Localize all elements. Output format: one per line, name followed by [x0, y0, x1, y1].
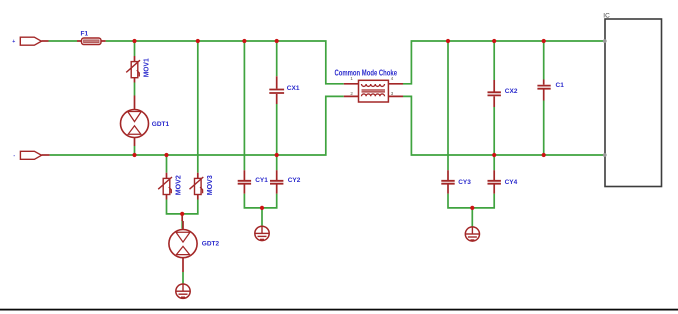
- earth ground (CY3/CY4): [465, 227, 479, 241]
- varistor MOV2: [158, 173, 172, 200]
- svg-text:-: -: [13, 153, 15, 159]
- wire: column CX1/CY2 x=276.7: [276, 41, 278, 170]
- IC pin dot bottom: [603, 153, 607, 157]
- svg-text:IC: IC: [603, 12, 610, 19]
- common mode choke L1: [344, 80, 403, 102]
- earth ground (GDT2): [176, 284, 190, 298]
- wire: column MOV2 x=166.5 and join to GDT2: [167, 155, 198, 284]
- capacitor CY4: [488, 170, 501, 193]
- svg-text:GDT1: GDT1: [152, 121, 170, 128]
- svg-text:CY1: CY1: [255, 177, 268, 184]
- svg-text:+: +: [12, 39, 15, 45]
- wire: column MOV1/GDT1 x=134.5: [134, 41, 136, 155]
- junction dots top rail: [132, 39, 545, 43]
- junction dot MOV2/MOV3 join: [180, 212, 184, 216]
- IC pin dot top: [603, 39, 607, 43]
- svg-text:CX2: CX2: [505, 88, 518, 95]
- svg-text:MOV1: MOV1: [144, 58, 151, 77]
- capacitor CY1: [238, 170, 251, 193]
- svg-text:Common Mode Choke: Common Mode Choke: [335, 69, 398, 78]
- junction dot CY3/CY4 join: [470, 206, 474, 210]
- wire: connector J2 pin stub: [42, 154, 50, 156]
- connector J1 (+ input): [20, 37, 41, 45]
- wire: column CY3 x=448: [448, 41, 494, 227]
- svg-text:MOV3: MOV3: [207, 175, 214, 195]
- wire: bottom rail: [50, 96, 605, 155]
- svg-text:MOV2: MOV2: [176, 175, 183, 195]
- svg-text:CY2: CY2: [288, 177, 301, 184]
- fuse F1: [77, 38, 106, 45]
- varistor MOV1: [126, 56, 140, 83]
- capacitor CX2: [488, 80, 501, 107]
- svg-text:GDT2: GDT2: [202, 241, 220, 248]
- svg-text:C1: C1: [556, 82, 565, 89]
- capacitor CY2: [270, 170, 283, 193]
- wire: column CY1 x=244.4: [244, 41, 276, 226]
- wire: column MOV3 x=197.8 (top rail through bottom rail): [197, 41, 199, 173]
- connector J2 (- input): [20, 151, 41, 159]
- bottom frame line: [0, 309, 678, 311]
- svg-text:CX1: CX1: [287, 85, 300, 92]
- varistor MOV3: [190, 173, 204, 200]
- wire: column C1 x=543.7: [543, 41, 545, 155]
- svg-text:F1: F1: [81, 31, 89, 38]
- capacitor CX1: [269, 76, 284, 104]
- capacitor C1: [537, 80, 550, 101]
- wire: top rail left section: [49, 41, 605, 84]
- earth ground (CY1/CY2): [255, 226, 269, 240]
- gas discharge tube GDT1: [121, 96, 149, 147]
- gas discharge tube GDT2: [169, 214, 197, 272]
- junction dots bottom rail: [132, 153, 545, 157]
- junction dot CY1/CY2 join: [260, 206, 264, 210]
- wire: connector J1 pin stub: [41, 40, 48, 42]
- capacitor CY3: [441, 170, 454, 193]
- svg-text:CY4: CY4: [505, 179, 518, 186]
- IC block: [605, 19, 662, 187]
- svg-text:CY3: CY3: [458, 179, 471, 186]
- wire: column CX2/CY4 x=494.2: [493, 41, 495, 170]
